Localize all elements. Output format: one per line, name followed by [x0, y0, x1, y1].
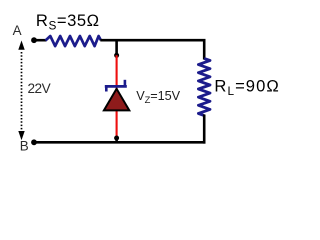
resistor RL [198, 59, 210, 116]
svg-text:RL=90Ω: RL=90Ω [214, 77, 279, 99]
wire [116, 55, 118, 138]
svg-text:RS=35Ω: RS=35Ω [36, 11, 100, 33]
label RS=35Ω [36, 11, 100, 33]
wire [34, 39, 47, 42]
wire [115, 138, 118, 142]
node A [13, 23, 22, 38]
label RL=90Ω [214, 77, 279, 99]
junction dot [114, 136, 119, 141]
junction dot [114, 53, 119, 58]
zener diode D1 [104, 80, 129, 111]
wire [100, 39, 205, 42]
wire [115, 40, 118, 55]
label VZ=15V [136, 89, 180, 105]
svg-text:B: B [20, 139, 29, 154]
terminal dot A [31, 37, 37, 43]
svg-text:A: A [13, 23, 22, 38]
wire [203, 115, 206, 144]
voltage measurement arrow 22V [18, 41, 24, 141]
terminal dot B [31, 139, 37, 145]
svg-text:VZ=15V: VZ=15V [136, 89, 180, 105]
resistor RS [46, 36, 101, 46]
wire [203, 40, 206, 59]
wire [34, 141, 206, 144]
svg-text:22V: 22V [28, 81, 51, 96]
node B [20, 139, 29, 154]
label 22V [28, 81, 51, 96]
